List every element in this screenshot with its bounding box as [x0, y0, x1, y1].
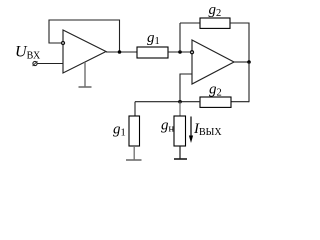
node input terminal U_BX: [33, 61, 38, 66]
wire top g2 left: [180, 22, 200, 24]
node junction bottom: [178, 100, 182, 104]
op-amp U2: [192, 40, 234, 84]
inverting input circle U2: [191, 51, 194, 54]
node junction op2 out: [247, 60, 251, 64]
svg-text:g1: g1: [113, 122, 126, 139]
wire op1 output: [106, 51, 137, 53]
inverting input circle U1: [62, 42, 65, 45]
wire noninverting input: [180, 74, 192, 102]
wire input to op-amp 1: [37, 63, 63, 65]
wire vertical to top g2: [179, 23, 181, 52]
ground g1 vertical: [126, 146, 142, 160]
wire op2 output: [234, 61, 249, 63]
svg-text:g1: g1: [147, 30, 160, 47]
ground op-amp 1: [79, 62, 92, 87]
ground gn: [174, 146, 187, 159]
svg-text:g2: g2: [209, 2, 222, 19]
wire to gn: [179, 102, 181, 116]
op-amp U1: [63, 30, 106, 73]
wire g1 to op2: [168, 51, 191, 53]
wire lower g2 right: [231, 101, 249, 103]
wire output down to lower g2: [248, 62, 250, 102]
wire top g2 right: [230, 23, 249, 62]
arrow I_BYX: [189, 117, 193, 144]
resistor g1 vertical: [129, 116, 140, 146]
node junction op1 out: [118, 50, 122, 54]
wire bottom bus: [135, 101, 200, 103]
svg-text:g2: g2: [209, 82, 222, 99]
wire to g1 vertical: [134, 102, 136, 116]
resistor g1 horizontal: [137, 47, 168, 58]
svg-text:UВХ: UВХ: [15, 44, 41, 62]
svg-text:IВЫХ: IВЫХ: [193, 121, 222, 138]
node junction inverting in: [178, 50, 182, 54]
resistor g2 top: [200, 18, 230, 28]
wire feedback loop U1: [49, 20, 120, 52]
svg-text:gн: gн: [161, 118, 175, 135]
resistor gn: [174, 116, 186, 146]
resistor g2 bottom: [200, 97, 231, 107]
